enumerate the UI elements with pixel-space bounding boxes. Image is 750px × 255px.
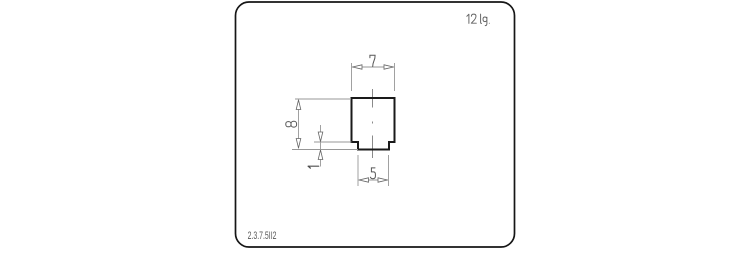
dimension line 7 xyxy=(352,66,394,68)
arrowhead right of dim 7 xyxy=(384,65,394,69)
extension line y142 for dim 1 xyxy=(314,141,352,143)
digit 5 xyxy=(370,168,375,179)
digit 8 (rotated) xyxy=(286,121,297,127)
arrowhead bottom of dim 8 xyxy=(296,139,301,149)
arrowhead top of dim 8 xyxy=(296,100,301,110)
arrowhead up of dim 1 xyxy=(318,150,323,160)
centerline (vertical axis of part) xyxy=(372,89,374,158)
extension line right of dim 7 xyxy=(394,63,396,91)
dimension line 8 xyxy=(298,100,300,149)
digit 7 xyxy=(370,55,375,66)
label 12 lg. xyxy=(467,14,490,26)
arrowhead left of dim 7 xyxy=(353,65,363,69)
digit 1 (rotated) xyxy=(308,166,319,168)
dimension line 1 xyxy=(320,125,322,167)
dimension line 5 xyxy=(359,179,389,181)
part outline xyxy=(352,98,395,150)
extension line y149.5 shared (dim 8 / dim 1) xyxy=(292,149,358,151)
arrowhead right of dim 5 xyxy=(378,178,388,182)
label 2.3.7.5II2 xyxy=(248,229,277,241)
svg-text:2.3.7.5II2: 2.3.7.5II2 xyxy=(248,229,277,241)
drawing frame xyxy=(236,2,515,247)
arrowhead down of dim 1 xyxy=(318,132,323,142)
arrowhead left of dim 5 xyxy=(359,178,369,182)
extension line left of dim 5 xyxy=(357,155,359,186)
extension line right of dim 5 xyxy=(388,155,390,186)
extension line left of dim 7 xyxy=(351,63,353,91)
extension line top of dim 8 xyxy=(295,98,351,100)
